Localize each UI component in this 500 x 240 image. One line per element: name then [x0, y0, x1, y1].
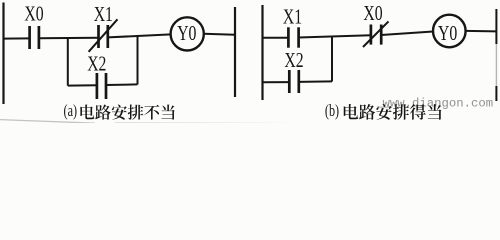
svg-text:Y0: Y0: [438, 22, 457, 46]
svg-text:X2: X2: [284, 49, 303, 73]
svg-text:X0: X0: [363, 2, 382, 26]
svg-text:(b): (b): [325, 102, 339, 120]
svg-text:X0: X0: [24, 2, 43, 26]
svg-text:Y0: Y0: [177, 22, 196, 46]
svg-text:X2: X2: [87, 52, 106, 76]
svg-text:(a): (a): [64, 102, 78, 120]
svg-text:X1: X1: [94, 3, 113, 27]
svg-text:X1: X1: [283, 5, 302, 29]
